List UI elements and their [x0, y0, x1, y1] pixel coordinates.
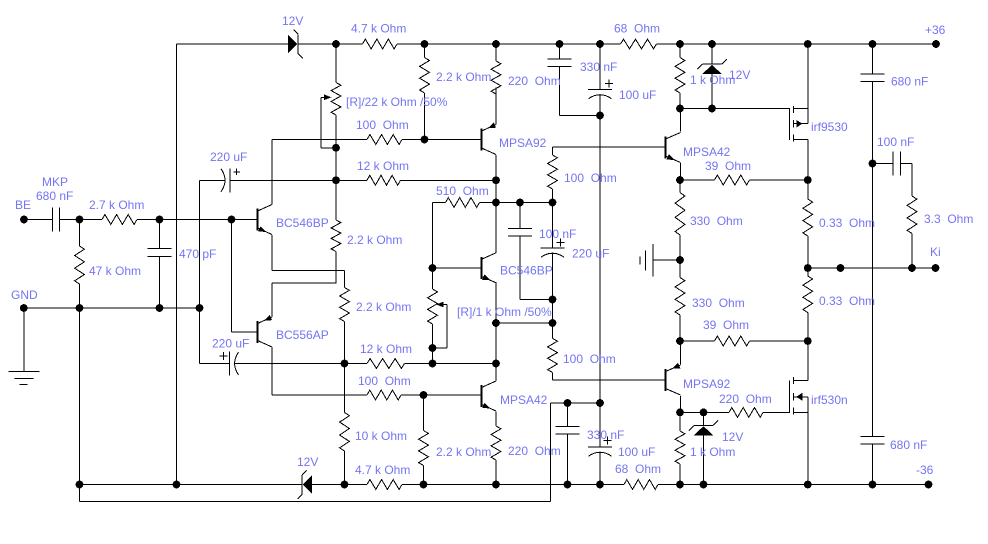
- svg-text:220 Ohm: 220 Ohm: [508, 444, 561, 458]
- svg-text:4.7 k Ohm: 4.7 k Ohm: [355, 463, 410, 477]
- svg-text:2.2 k Ohm: 2.2 k Ohm: [436, 445, 491, 459]
- svg-text:100 uF: 100 uF: [618, 445, 655, 459]
- svg-text:100 nF: 100 nF: [539, 227, 576, 241]
- svg-text:100 Ohm: 100 Ohm: [563, 352, 616, 366]
- svg-text:510 Ohm: 510 Ohm: [436, 184, 489, 198]
- svg-text:220 Ohm: 220 Ohm: [719, 392, 772, 406]
- svg-text:3.3 Ohm: 3.3 Ohm: [924, 212, 973, 226]
- svg-text:0.33 Ohm: 0.33 Ohm: [819, 294, 875, 308]
- svg-text:39 Ohm: 39 Ohm: [705, 159, 751, 173]
- svg-text:470 pF: 470 pF: [179, 247, 216, 261]
- svg-text:220 Ohm: 220 Ohm: [508, 74, 561, 88]
- svg-text:680 nF: 680 nF: [36, 189, 73, 203]
- svg-text:irf530n: irf530n: [811, 393, 848, 407]
- svg-text:MKP: MKP: [42, 175, 68, 189]
- svg-text:BC546BP: BC546BP: [500, 264, 553, 278]
- svg-text:680 nF: 680 nF: [891, 75, 928, 89]
- svg-text:100 nF: 100 nF: [877, 135, 914, 149]
- svg-text:12V: 12V: [297, 455, 318, 469]
- svg-text:1 k Ohm: 1 k Ohm: [690, 445, 735, 459]
- svg-text:0.33 Ohm: 0.33 Ohm: [819, 216, 875, 230]
- svg-text:MPSA42: MPSA42: [683, 145, 731, 159]
- svg-text:BC546BP: BC546BP: [276, 216, 329, 230]
- svg-text:100 Ohm: 100 Ohm: [358, 374, 411, 388]
- svg-text:Ki: Ki: [930, 245, 941, 259]
- svg-text:BE: BE: [15, 198, 31, 212]
- svg-text:12V: 12V: [282, 14, 303, 28]
- svg-text:330 Ohm: 330 Ohm: [692, 296, 745, 310]
- svg-text:220 uF: 220 uF: [572, 247, 609, 261]
- svg-text:2.2 k Ohm: 2.2 k Ohm: [347, 233, 402, 247]
- svg-text:[R]/22 k Ohm /50%: [R]/22 k Ohm /50%: [346, 95, 448, 109]
- svg-text:12 k Ohm: 12 k Ohm: [360, 342, 412, 356]
- svg-text:4.7 k Ohm: 4.7 k Ohm: [351, 22, 406, 36]
- svg-text:2.2 k Ohm: 2.2 k Ohm: [436, 70, 491, 84]
- svg-text:100 uF: 100 uF: [619, 88, 656, 102]
- svg-text:2.2 k Ohm: 2.2 k Ohm: [356, 300, 411, 314]
- svg-text:MPSA42: MPSA42: [500, 393, 548, 407]
- svg-text:100 Ohm: 100 Ohm: [564, 171, 617, 185]
- svg-text:68 Ohm: 68 Ohm: [614, 22, 660, 36]
- svg-text:GND: GND: [11, 288, 38, 302]
- svg-text:220 uF: 220 uF: [212, 337, 249, 351]
- svg-text:2.7 k Ohm: 2.7 k Ohm: [89, 198, 144, 212]
- svg-text:39 Ohm: 39 Ohm: [703, 318, 749, 332]
- svg-text:+36: +36: [925, 23, 946, 37]
- svg-text:MPSA92: MPSA92: [499, 136, 547, 150]
- svg-text:330 nF: 330 nF: [587, 428, 624, 442]
- svg-text:47 k Ohm: 47 k Ohm: [89, 264, 141, 278]
- svg-text:330 Ohm: 330 Ohm: [690, 214, 743, 228]
- svg-text:[R]/1 k Ohm /50%: [R]/1 k Ohm /50%: [457, 305, 552, 319]
- svg-text:12V: 12V: [722, 430, 743, 444]
- svg-text:330 nF: 330 nF: [580, 60, 617, 74]
- svg-text:MPSA92: MPSA92: [683, 377, 731, 391]
- svg-text:68 Ohm: 68 Ohm: [615, 462, 661, 476]
- svg-text:-36: -36: [916, 463, 934, 477]
- svg-text:12 k Ohm: 12 k Ohm: [357, 159, 409, 173]
- svg-text:680 nF: 680 nF: [890, 438, 927, 452]
- svg-text:220 uF: 220 uF: [210, 150, 247, 164]
- svg-text:100 Ohm: 100 Ohm: [356, 118, 409, 132]
- svg-text:BC556AP: BC556AP: [276, 328, 329, 342]
- svg-text:10 k Ohm: 10 k Ohm: [355, 429, 407, 443]
- svg-text:irf9530: irf9530: [811, 120, 848, 134]
- svg-text:12V: 12V: [729, 68, 750, 82]
